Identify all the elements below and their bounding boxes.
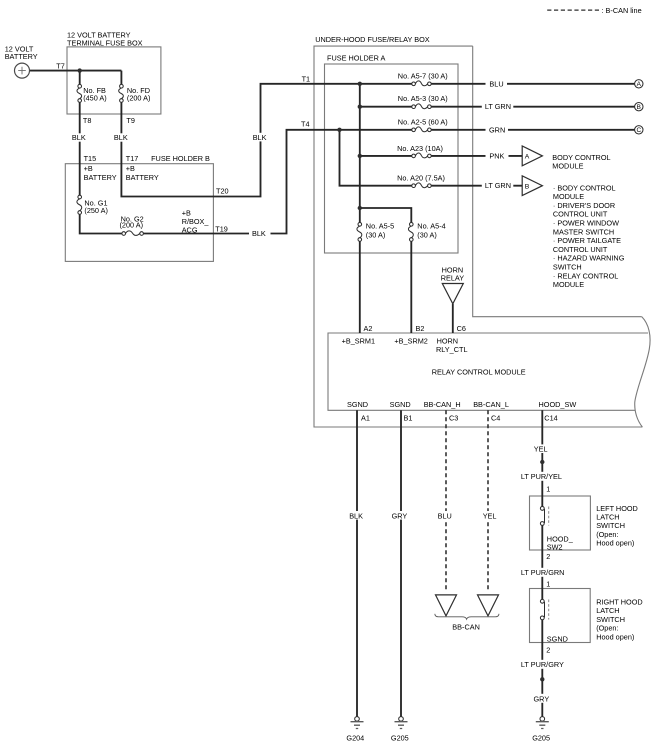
- splice node on G205 wire: [540, 677, 544, 681]
- switch contacts left hood latch switch: [540, 507, 548, 526]
- svg-text:LT PUR/GRY: LT PUR/GRY: [521, 660, 564, 669]
- svg-text:T1: T1: [302, 74, 311, 83]
- wire bus from T4 junction down to A20 feed: [340, 130, 412, 186]
- switch contacts right hood latch switch: [540, 599, 548, 619]
- triangle connector B: [522, 176, 542, 196]
- ground G205 left: [391, 717, 409, 743]
- svg-text:CONTROL UNIT: CONTROL UNIT: [553, 210, 608, 219]
- svg-text:T9: T9: [126, 116, 135, 125]
- fuse A23 (10A): [397, 144, 443, 158]
- svg-text:A: A: [637, 81, 642, 88]
- svg-text:T19: T19: [215, 225, 228, 234]
- svg-text:HOOD_SW: HOOD_SW: [539, 400, 577, 409]
- wire bus to A5-5 and A5-4 fuses: [360, 208, 412, 223]
- left hood latch switch box: [530, 496, 591, 550]
- svg-text:(30 A): (30 A): [417, 230, 436, 239]
- svg-text:(30 A): (30 A): [366, 230, 385, 239]
- under-hood fuse/relay box: [314, 35, 650, 427]
- wire label BLK T9: [113, 133, 131, 142]
- right hood latch switch box: [530, 589, 591, 643]
- wire pin C14 HOOD_SW YEL to left hood latch switch: [541, 410, 543, 506]
- svg-text:(250 A): (250 A): [84, 206, 108, 215]
- svg-text:T8: T8: [83, 116, 92, 125]
- svg-text:SGND: SGND: [390, 400, 411, 409]
- wire fuse A5-4 to pin B2: [410, 241, 412, 333]
- triangle B destination list: [553, 183, 625, 289]
- svg-text:No. A20 (7.5A): No. A20 (7.5A): [397, 173, 445, 182]
- svg-text:CONTROL UNIT: CONTROL UNIT: [553, 245, 608, 254]
- svg-text:Hood open): Hood open): [596, 539, 634, 548]
- wire T19 BLK up to T4 row to fuse A2-5: [143, 130, 411, 234]
- svg-text:: B-CAN line: : B-CAN line: [602, 6, 642, 15]
- svg-text:(200 A): (200 A): [127, 94, 151, 103]
- node junction T4 bus: [337, 128, 341, 132]
- svg-text:No. A2-5 (60 A): No. A2-5 (60 A): [398, 117, 448, 126]
- svg-text:2: 2: [546, 645, 550, 654]
- 12 volt battery: [5, 45, 38, 78]
- fuse A5-7 (30 A): [398, 71, 448, 85]
- svg-text:MODULE: MODULE: [552, 162, 583, 171]
- fuse FD (200 A): [119, 84, 151, 102]
- pin label +B BATTERY T15: [84, 164, 117, 182]
- svg-text:SWITCH: SWITCH: [596, 615, 625, 624]
- wire label GRY G205: [532, 694, 554, 704]
- svg-text:(450 A): (450 A): [83, 94, 107, 103]
- svg-text:LATCH: LATCH: [596, 606, 619, 615]
- wire left hood latch switch to right hood latch switch: [541, 525, 543, 599]
- wire bus from T1 junction down: [359, 84, 361, 208]
- svg-text:LT PUR/GRN: LT PUR/GRN: [521, 568, 565, 577]
- wire row A23 output PNK to triangle A: [431, 155, 522, 157]
- svg-text:G205: G205: [532, 733, 550, 742]
- svg-text:RIGHT HOOD: RIGHT HOOD: [596, 598, 643, 607]
- wire row A20 output LT GRN to triangle B: [431, 185, 522, 187]
- svg-text:RLY_CTL: RLY_CTL: [436, 345, 468, 354]
- svg-text:YEL: YEL: [534, 445, 548, 454]
- svg-text:+B_SRM2: +B_SRM2: [394, 337, 427, 346]
- svg-text:C3: C3: [449, 414, 458, 423]
- wire T7 down to fuse FB: [79, 71, 81, 85]
- svg-text:· BODY CONTROL: · BODY CONTROL: [553, 183, 616, 192]
- svg-text:C: C: [636, 127, 641, 134]
- svg-text:MODULE: MODULE: [553, 192, 584, 201]
- pin label HORN RLY_CTL: [436, 337, 468, 355]
- fuse A2-5 (60 A): [398, 117, 448, 131]
- svg-text:C4: C4: [491, 414, 500, 423]
- terminal B: [635, 103, 643, 112]
- svg-text:BATTERY: BATTERY: [84, 173, 117, 182]
- fuse A5-5 (30 A): [357, 222, 394, 242]
- fuse FB (450 A): [77, 84, 107, 102]
- svg-text:MODULE: MODULE: [553, 280, 584, 289]
- fuse G2 (200 A): [120, 214, 144, 235]
- svg-text:No. A23 (10A): No. A23 (10A): [397, 144, 443, 153]
- svg-text:BLK: BLK: [253, 133, 267, 142]
- wire label LT PUR/GRY: [520, 660, 569, 669]
- label left hood latch switch: [596, 504, 638, 548]
- terminal A: [635, 80, 643, 89]
- svg-text:RELAY: RELAY: [441, 273, 465, 282]
- svg-text:YEL: YEL: [483, 511, 497, 520]
- wire row A5-3 feed: [360, 106, 412, 108]
- wire row A5-3 output LT GRN to terminal B: [431, 106, 634, 108]
- wire label BLK T20 riser: [252, 133, 270, 142]
- wire pin B1 GRY down to ground G205: [400, 410, 402, 716]
- svg-text:T15: T15: [84, 154, 97, 163]
- wire T7 down to fuse FD: [120, 71, 122, 85]
- svg-text:Hood open): Hood open): [596, 632, 634, 641]
- wire horn relay to pin C6: [452, 304, 454, 333]
- svg-text:· POWER TAILGATE: · POWER TAILGATE: [553, 236, 621, 245]
- node junction A23: [358, 154, 362, 158]
- svg-text:1: 1: [546, 580, 550, 589]
- svg-text:· POWER WINDOW: · POWER WINDOW: [553, 219, 619, 228]
- svg-text:BB-CAN: BB-CAN: [452, 622, 480, 631]
- svg-text:PNK: PNK: [489, 151, 504, 160]
- svg-text:T17: T17: [126, 154, 139, 163]
- svg-text:BLK: BLK: [114, 133, 128, 142]
- svg-text:(Open:: (Open:: [596, 530, 618, 539]
- svg-text:+B_SRM1: +B_SRM1: [342, 337, 375, 346]
- svg-text:SW2: SW2: [547, 543, 563, 552]
- svg-text:BATTERY: BATTERY: [5, 52, 38, 61]
- wire label YEL C4: [481, 511, 502, 520]
- node junction A5-3: [358, 105, 362, 109]
- wire label GRN row 3: [486, 125, 509, 134]
- wire label BLU C3: [436, 511, 457, 520]
- svg-text:(Open:: (Open:: [596, 624, 618, 633]
- svg-text:ACG: ACG: [182, 226, 198, 235]
- fuse holder B box: [65, 154, 213, 262]
- svg-text:No. A5-5: No. A5-5: [366, 222, 394, 231]
- svg-text:MASTER SWITCH: MASTER SWITCH: [553, 227, 614, 236]
- fuse A20 (7.5A): [397, 173, 445, 187]
- svg-text:A: A: [525, 154, 530, 161]
- ground G204: [346, 717, 364, 743]
- svg-text:+B: +B: [126, 164, 135, 173]
- ground G205 right: [532, 717, 550, 743]
- node junction T1 bus: [358, 82, 362, 86]
- svg-text:G204: G204: [346, 733, 364, 742]
- svg-text:GRN: GRN: [489, 125, 505, 134]
- svg-text:C6: C6: [457, 324, 466, 333]
- wire G1 to G2 fuse: [80, 214, 122, 233]
- svg-text:1: 1: [546, 485, 550, 494]
- svg-text:A1: A1: [361, 414, 370, 423]
- wire row A23 feed: [360, 155, 412, 157]
- svg-text:BLK: BLK: [72, 133, 86, 142]
- wire label LT GRN row 5: [482, 181, 514, 190]
- wire label BLU row 1: [486, 79, 508, 88]
- svg-text:No. A5-4: No. A5-4: [417, 222, 445, 231]
- svg-text:2: 2: [546, 552, 550, 561]
- svg-text:(200 A): (200 A): [120, 221, 144, 230]
- wire right hood latch switch to ground G205: [541, 620, 543, 717]
- svg-text:UNDER-HOOD FUSE/RELAY BOX: UNDER-HOOD FUSE/RELAY BOX: [315, 35, 430, 44]
- svg-text:BLK: BLK: [349, 511, 363, 520]
- svg-text:RELAY CONTROL MODULE: RELAY CONTROL MODULE: [432, 368, 526, 377]
- svg-text:T7: T7: [56, 61, 65, 70]
- svg-text:G205: G205: [391, 733, 409, 742]
- wire label YEL C14: [532, 444, 553, 453]
- wire label LT GRN row 2: [482, 102, 514, 111]
- wire pin C3 BB-CAN_H BLU dashed: [445, 410, 447, 592]
- wire battery to T7 into terminal fuse box: [30, 70, 122, 72]
- svg-text:LT PUR/YEL: LT PUR/YEL: [521, 472, 562, 481]
- wire row A2-5 output GRN to terminal C: [431, 129, 634, 131]
- splice node on C14 wire: [540, 460, 544, 464]
- wire row A5-7 output BLU to terminal A: [431, 83, 634, 85]
- legend B-CAN line: [547, 6, 641, 15]
- BB-CAN triangle YEL: [478, 595, 499, 616]
- wire fuse A5-5 to pin A2: [359, 241, 361, 333]
- wire label PNK row 4: [486, 151, 509, 160]
- wire label LT PUR/GRN: [520, 568, 569, 577]
- svg-text:TERMINAL FUSE BOX: TERMINAL FUSE BOX: [67, 38, 143, 47]
- svg-text:No. A5-7 (30 A): No. A5-7 (30 A): [398, 71, 448, 80]
- terminal C: [635, 126, 643, 135]
- svg-text:+B: +B: [84, 164, 93, 173]
- svg-text:+B: +B: [182, 208, 191, 217]
- wire label BLK T8: [71, 133, 89, 142]
- svg-text:BLK: BLK: [252, 229, 266, 238]
- svg-text:BLU: BLU: [489, 79, 503, 88]
- svg-text:B: B: [637, 104, 641, 111]
- svg-text:T4: T4: [301, 120, 310, 129]
- svg-text:B1: B1: [404, 414, 413, 423]
- wire label BLK A1: [348, 511, 368, 520]
- svg-text:BLU: BLU: [438, 511, 452, 520]
- svg-text:No. A5-3 (30 A): No. A5-3 (30 A): [398, 94, 448, 103]
- svg-text:C14: C14: [544, 414, 557, 423]
- svg-text:SWITCH: SWITCH: [596, 521, 625, 530]
- relay control module box U1: [328, 333, 648, 410]
- svg-text:BATTERY: BATTERY: [126, 173, 159, 182]
- svg-text:LT GRN: LT GRN: [485, 181, 511, 190]
- wire T8 BLK fuse FB to fuse G1: [79, 102, 81, 195]
- fuse A5-3 (30 A): [398, 94, 448, 109]
- svg-text:B: B: [525, 183, 530, 190]
- triangle connector A: [522, 146, 610, 171]
- svg-text:SGND: SGND: [547, 635, 568, 644]
- wire T9 T17 T20 BLK up to T1 row to fuse A5-7: [121, 84, 411, 197]
- BB-CAN triangle BLU: [436, 595, 457, 616]
- node T7 junction: [56, 61, 82, 73]
- label right hood latch switch: [596, 598, 643, 642]
- svg-text:SWITCH: SWITCH: [553, 263, 582, 272]
- svg-text:LT GRN: LT GRN: [485, 102, 511, 111]
- svg-text:B2: B2: [416, 324, 425, 333]
- svg-text:BB-CAN_L: BB-CAN_L: [473, 400, 509, 409]
- svg-text:· DRIVER'S DOOR: · DRIVER'S DOOR: [553, 201, 615, 210]
- svg-text:BB-CAN_H: BB-CAN_H: [424, 400, 461, 409]
- svg-text:FUSE HOLDER B: FUSE HOLDER B: [151, 154, 210, 163]
- svg-text:LEFT HOOD: LEFT HOOD: [596, 504, 638, 513]
- fuse holder A box: [325, 54, 459, 254]
- svg-text:T20: T20: [216, 187, 229, 196]
- svg-text:GRY: GRY: [534, 694, 550, 703]
- svg-text:GRY: GRY: [392, 511, 408, 520]
- svg-text:· HAZARD WARNING: · HAZARD WARNING: [553, 254, 625, 263]
- pin label +B R/BOX_ ACG: [182, 208, 210, 234]
- fuse G1 (250 A): [77, 195, 108, 215]
- BB-CAN brace: [435, 614, 499, 619]
- svg-text:· RELAY CONTROL: · RELAY CONTROL: [553, 271, 618, 280]
- svg-text:SGND: SGND: [347, 400, 368, 409]
- svg-text:LATCH: LATCH: [596, 513, 619, 522]
- svg-text:A2: A2: [364, 324, 373, 333]
- svg-text:HORN: HORN: [437, 337, 459, 346]
- horn relay K1: [441, 266, 465, 304]
- wire pin C4 BB-CAN_L YEL dashed: [487, 410, 489, 592]
- wire label BLK T19: [249, 229, 271, 238]
- 12 volt battery terminal fuse box: [67, 31, 161, 114]
- svg-text:FUSE HOLDER A: FUSE HOLDER A: [327, 54, 386, 63]
- wire label GRY B1: [390, 511, 411, 520]
- wire label LT PUR/YEL: [520, 472, 568, 481]
- fuse A5-4 (30 A): [408, 222, 445, 242]
- pin label HOOD_SW2: [547, 534, 574, 551]
- wire pin A1 BLK down to ground G204: [356, 410, 358, 716]
- pin label +B BATTERY T17: [126, 164, 159, 182]
- node junction bottom bus: [358, 206, 362, 210]
